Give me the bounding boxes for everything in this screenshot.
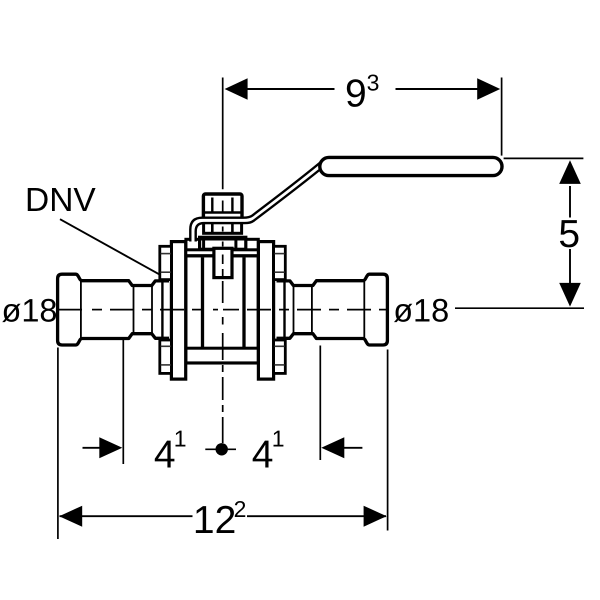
left valve end edge [161,282,163,338]
handle grip [320,157,502,175]
right fitting bead joint line [363,281,365,339]
body joint line left [201,258,204,349]
body joint line right [242,258,245,349]
dim 9-3 arrow left [225,78,248,100]
right fitting dip line 2 [293,286,295,334]
dim 4-1 left arrow [99,437,122,458]
svg-text:4: 4 [252,434,274,477]
stem hex nut [203,194,242,219]
dim 4-1 extension right [319,346,321,461]
bolt nut right bottom [274,340,286,373]
dim 5 extension top [504,157,584,159]
dim 12-2 arrow left [59,506,82,527]
stem block [214,248,232,277]
svg-text:1: 1 [174,425,187,451]
dim 12-2 arrow right [364,506,387,527]
dim 4-1 right tail [343,447,363,449]
right flange plate [258,242,273,380]
handle lever arm fill [190,159,328,242]
bolt nut left top [160,246,172,279]
handle lever arm outline outer [190,159,324,242]
svg-text:ø18: ø18 [393,293,449,329]
left fitting bead joint line [80,281,82,339]
left fitting dip line 2 [151,286,153,334]
handle stop plate [204,223,242,234]
vertical centerline [222,78,224,444]
svg-text:DNV: DNV [25,182,96,219]
dim 4-1 extension left [122,340,124,465]
center dot ticks [205,448,236,450]
left press fitting outline [58,274,169,345]
horizontal centerline [57,309,389,311]
svg-text:ø18: ø18 [2,293,58,329]
dim 4-1 right arrow [321,437,344,458]
dim 12-2 extension left [57,348,59,540]
right fitting dip line 1 [311,286,313,334]
stem mounting pad [200,237,246,249]
top bolt bar [186,239,258,250]
right press fitting outline [277,274,388,345]
dim 9-3 extension line right [501,78,503,156]
dim 12-2 extension right [387,350,389,531]
svg-text:12: 12 [193,499,236,542]
handle lever arm outline inner [196,163,328,242]
dim 9-3 line [247,88,335,90]
dim 4-1 left tail [83,447,102,449]
svg-text:4: 4 [154,434,176,477]
DNV leader line [60,219,159,274]
right valve end edge [283,282,285,338]
dim 12-2 line [60,515,193,517]
center dot [216,443,228,455]
dim 5 arrow up [559,160,581,184]
dim 5 extension bottom [455,307,584,309]
svg-text:2: 2 [234,496,247,522]
left press fitting fill [58,274,169,345]
dim 5 line [569,186,571,218]
svg-text:3: 3 [367,70,380,96]
svg-text:1: 1 [272,425,285,451]
svg-text:5: 5 [558,213,580,256]
valve body block [186,256,258,363]
left flange plate [171,242,185,380]
dim 5 arrow down [559,283,581,307]
dim 9-3 arrow right [477,78,500,100]
bottom bolt bar [186,348,258,363]
bolt nut right top [274,246,286,279]
bolt nut left bottom [160,340,172,373]
svg-text:9: 9 [345,73,367,116]
right press fitting fill [277,274,388,345]
left fitting dip line 1 [133,286,135,334]
